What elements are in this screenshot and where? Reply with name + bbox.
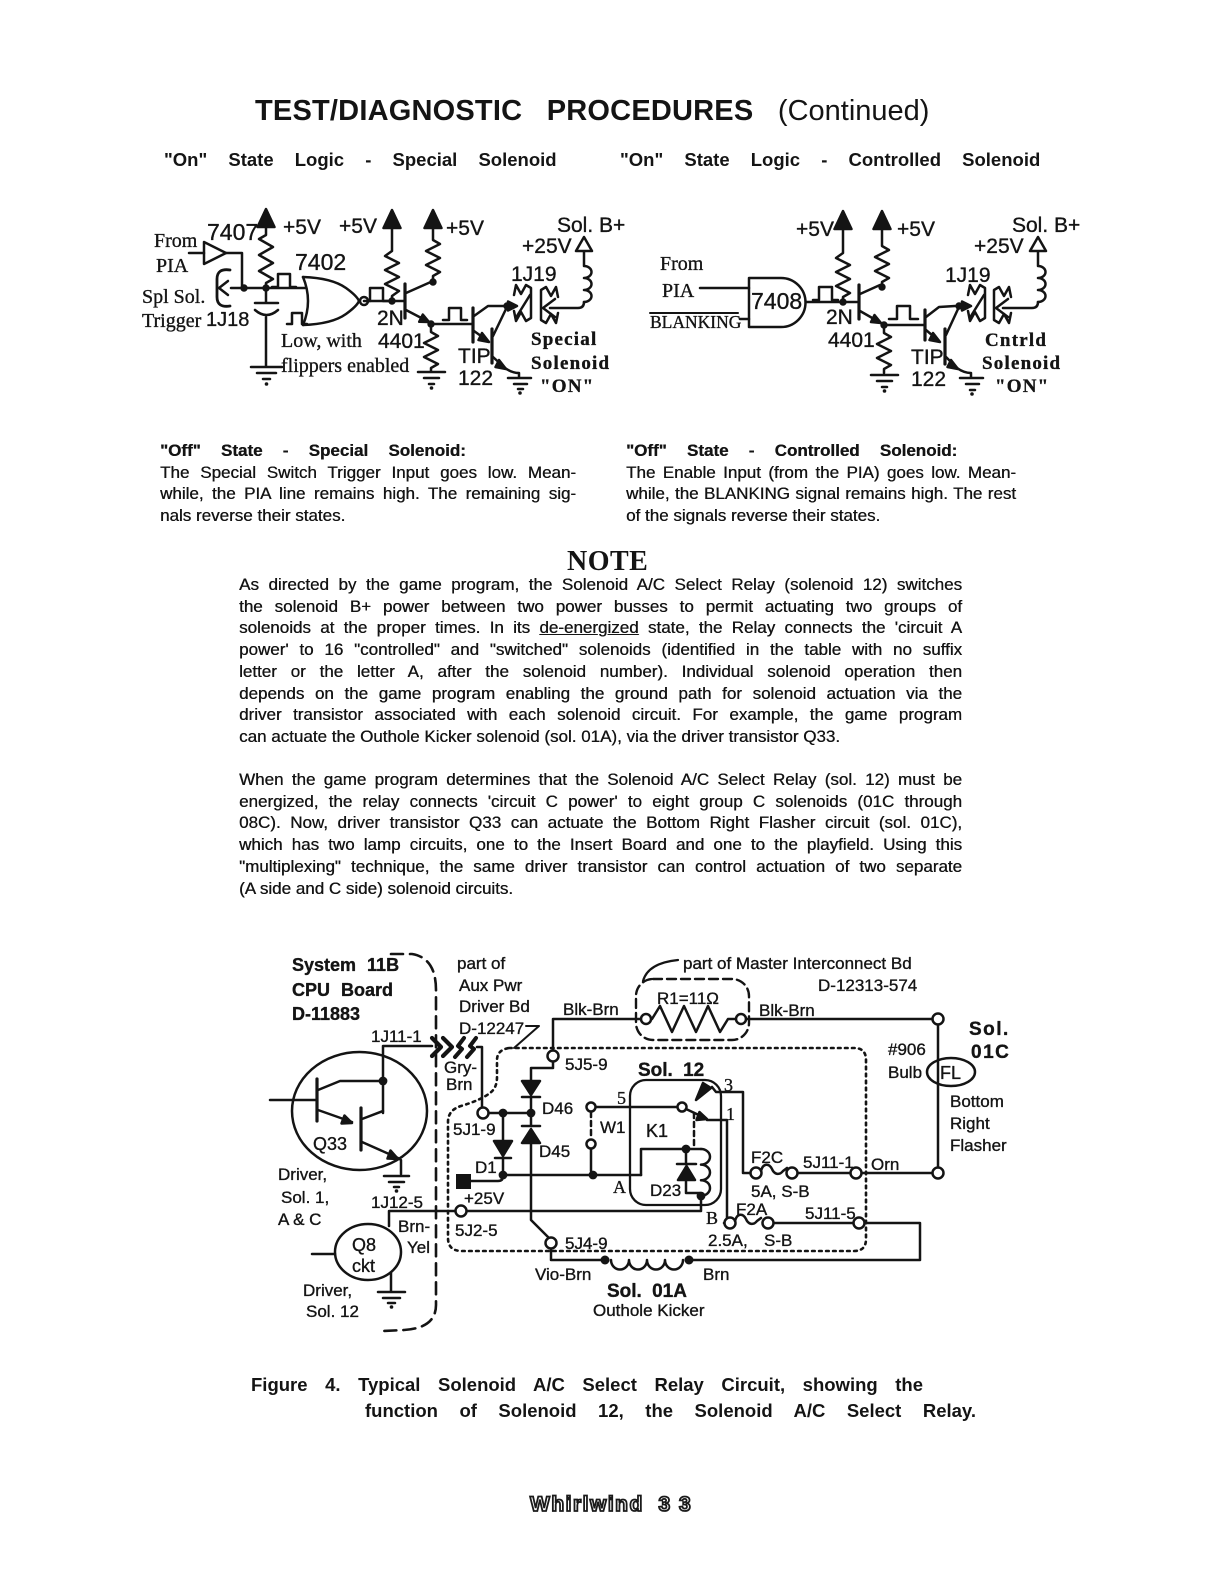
+5V arrow (258, 209, 275, 227)
svg-text:+5V: +5V (796, 218, 834, 241)
svg-text:Driver Bd: Driver Bd (459, 997, 530, 1016)
junction dot coil bottom (697, 1192, 706, 1201)
wire emitter to TIP122 (431, 323, 472, 326)
wire contact 3 to F2C (712, 1087, 750, 1173)
svg-text:From: From (154, 230, 198, 252)
wire +25V rail (471, 1175, 641, 1181)
relay armature to contact 1 (686, 1109, 703, 1117)
svg-text:D45: D45 (539, 1142, 570, 1161)
svg-text:Yel: Yel (407, 1238, 430, 1257)
page footer (530, 1493, 692, 1517)
wire B side to 5J2-5 (466, 1196, 701, 1211)
wire F2C to 5J11-1 (798, 1172, 850, 1175)
junction dot (527, 1109, 536, 1118)
transistor TIP122 (923, 310, 926, 340)
junction dot (499, 1171, 508, 1180)
junction dot (388, 297, 395, 304)
svg-text:4401: 4401 (828, 329, 875, 352)
wire to 5J1-9 (477, 1047, 482, 1107)
+5V arrow (384, 210, 401, 228)
connector 5J5-9 (548, 1051, 559, 1062)
svg-text:+5V: +5V (339, 215, 377, 238)
svg-text:"ON": "ON" (540, 376, 594, 397)
wire Q8 input (312, 1253, 335, 1256)
connector 5J4-9 (546, 1238, 557, 1249)
svg-text:Bulb: Bulb (888, 1063, 922, 1082)
AND gate 7408 (749, 278, 805, 327)
leader to R1 box (643, 960, 678, 981)
wire PIA input (189, 252, 204, 255)
svg-text:S-B: S-B (764, 1231, 792, 1250)
wire connector to coil (1003, 302, 1038, 308)
ground (384, 1176, 409, 1187)
emitter resistor (424, 327, 438, 371)
junction dot emitter (880, 321, 887, 328)
note paragraph 1 (239, 574, 962, 748)
junction dot collector (503, 302, 510, 309)
diode D23 (677, 1149, 696, 1164)
pulse waveform (889, 306, 918, 319)
junction dot (379, 1077, 388, 1086)
wire contact 1 to F2A (707, 1120, 727, 1223)
svg-text:From: From (660, 253, 704, 275)
diode D1 (502, 1113, 505, 1140)
svg-text:Spl Sol.: Spl Sol. (142, 286, 205, 308)
pulse waveform (364, 288, 389, 301)
junction dot Vio-Brn (601, 1256, 610, 1265)
wire emitter to TIP122 (884, 324, 924, 327)
svg-text:A: A (613, 1177, 626, 1197)
relay contact 3 arrow (696, 1083, 711, 1100)
CPU board dashed border (384, 954, 436, 1331)
svg-text:7408: 7408 (751, 288, 802, 314)
svg-text:5J2-5: 5J2-5 (455, 1221, 498, 1240)
wire Q8 to ground (390, 1273, 393, 1291)
svg-text:+25V: +25V (522, 235, 572, 258)
svg-text:Sol. 1,: Sol. 1, (281, 1188, 329, 1207)
svg-text:Vio-Brn: Vio-Brn (535, 1265, 591, 1284)
svg-text:PIA: PIA (662, 280, 695, 302)
svg-text:1J11-1: 1J11-1 (371, 1027, 422, 1046)
svg-text:Blk-Brn: Blk-Brn (759, 1001, 815, 1020)
wire 5J1-9 to diode lines (489, 1112, 531, 1115)
connector 5J2-5 (456, 1206, 467, 1217)
Q33 first base bar (315, 1079, 318, 1121)
svg-text:D23: D23 (650, 1181, 681, 1200)
svg-text:+25V: +25V (464, 1189, 505, 1208)
svg-text:part of: part of (457, 954, 505, 973)
+25V open arrow (576, 237, 592, 251)
diode D45 (522, 1113, 540, 1126)
svg-text:Brn: Brn (703, 1265, 729, 1284)
pull-up resistor to +5V (259, 227, 273, 288)
transistor Q33 driver (circled pair) (292, 1052, 427, 1170)
svg-text:W1: W1 (600, 1118, 626, 1137)
svg-text:Sol.: Sol. (969, 1019, 1010, 1040)
junction dot (839, 298, 846, 305)
wire PIA to AND gate (700, 287, 749, 290)
svg-text:Low, with: Low, with (281, 330, 362, 352)
svg-text:Cntrld: Cntrld (985, 330, 1047, 351)
svg-text:01C: 01C (971, 1042, 1010, 1063)
note paragraph 2 (239, 769, 962, 899)
wire F2A to 5J11-5 (774, 1222, 853, 1225)
transistor TIP122 (471, 308, 474, 342)
svg-text:BLANKING: BLANKING (650, 312, 742, 332)
svg-text:PIA: PIA (156, 255, 189, 277)
svg-text:+5V: +5V (446, 217, 484, 240)
svg-text:Sol. 12: Sol. 12 (306, 1302, 359, 1321)
emitter resistor (877, 328, 891, 373)
junction dot collector (955, 302, 962, 309)
+25V open arrow (1030, 237, 1046, 251)
page title (255, 95, 929, 128)
junction dot (240, 284, 247, 291)
wire trigger node (231, 287, 305, 290)
svg-text:Sol. 01A: Sol. 01A (607, 1281, 687, 1302)
solenoid coil Sol. 01A (611, 1260, 683, 1270)
svg-text:4401: 4401 (378, 330, 425, 353)
junction dot collector (878, 283, 885, 290)
pulse waveform (813, 287, 838, 300)
svg-text:Blk-Brn: Blk-Brn (563, 1000, 619, 1019)
leader to dotted box (514, 1026, 539, 1048)
svg-text:ckt: ckt (352, 1256, 375, 1276)
+5V arrow (874, 211, 891, 229)
svg-text:1J19: 1J19 (945, 264, 991, 287)
svg-text:2N: 2N (826, 306, 853, 329)
junction dot Brn (685, 1256, 694, 1265)
connector 1J18 (217, 270, 230, 307)
NOTE heading (567, 546, 648, 578)
svg-text:Q33: Q33 (313, 1134, 347, 1154)
svg-text:Driver,: Driver, (278, 1165, 327, 1184)
svg-text:Orn: Orn (871, 1155, 899, 1174)
relay K1 box (630, 1080, 721, 1205)
wire AND output (806, 301, 857, 304)
junction dot (589, 1171, 598, 1180)
special solenoid coil (584, 251, 592, 302)
connector at flasher (933, 1168, 944, 1179)
svg-text:flippers enabled: flippers enabled (281, 355, 409, 377)
svg-text:Sol. B+: Sol. B+ (1012, 214, 1080, 237)
svg-text:Aux Pwr: Aux Pwr (459, 976, 523, 995)
svg-text:Sol. 12: Sol. 12 (638, 1060, 704, 1081)
ground (871, 375, 898, 387)
svg-text:Solenoid: Solenoid (531, 353, 610, 374)
wire collector to 1J11-1 (383, 1046, 432, 1113)
svg-text:D-12247: D-12247 (459, 1019, 524, 1038)
svg-text:TIP: TIP (911, 346, 944, 369)
Q33 first collector (318, 1081, 383, 1090)
junction dot (682, 1145, 691, 1154)
wire NOR output (368, 300, 404, 303)
wire Blk-Brn from 5J5-9 up and to R1 (553, 1019, 641, 1050)
svg-text:#906: #906 (888, 1040, 926, 1059)
"Off" State - Special Solenoid paragraph (160, 440, 576, 527)
figure caption (251, 1374, 923, 1396)
wire solenoid return to 5J11-5 (693, 1223, 920, 1260)
svg-text:part of Master Interconnect Bd: part of Master Interconnect Bd (683, 954, 912, 973)
svg-text:+5V: +5V (283, 216, 321, 239)
wire relay pin 5 (596, 1106, 677, 1109)
ground (378, 1292, 405, 1303)
pulse waveform (272, 274, 296, 287)
ground (960, 378, 983, 390)
connector 5J11-5 (854, 1218, 865, 1229)
"Off" State - Controlled Solenoid paragraph (626, 440, 1016, 527)
right column subheading (620, 149, 1040, 171)
svg-text:Trigger: Trigger (142, 310, 202, 332)
svg-text:Driver,: Driver, (303, 1281, 352, 1300)
svg-text:A & C: A & C (278, 1210, 321, 1229)
svg-text:5J1-9: 5J1-9 (453, 1120, 496, 1139)
wire BLANKING to AND gate (740, 318, 749, 321)
Aux Pwr Driver Bd dotted border (448, 1048, 866, 1251)
svg-text:+5V: +5V (897, 218, 935, 241)
svg-text:TIP: TIP (458, 345, 491, 368)
left column subheading (164, 149, 557, 171)
transistor 2N4401 (403, 284, 406, 318)
driver Q8 circuit circle (335, 1224, 401, 1280)
wire flasher vertical (937, 1025, 940, 1167)
wire to connector (507, 305, 511, 308)
pulse waveform (443, 308, 467, 320)
flasher bulb FL (927, 1058, 975, 1086)
svg-text:D46: D46 (542, 1099, 573, 1118)
svg-text:1J12-5: 1J12-5 (371, 1193, 423, 1212)
svg-text:2N: 2N (377, 307, 404, 330)
relay coil K1 (701, 1149, 710, 1196)
svg-text:1J18: 1J18 (206, 309, 249, 331)
wire A side into relay coil (641, 1149, 701, 1175)
R1 dashed box (master interconnect) (636, 979, 749, 1040)
jumper W1 (590, 1112, 593, 1139)
connector 5J1-9 (478, 1108, 489, 1119)
svg-text:FL: FL (940, 1063, 961, 1083)
base pull-up resistor to +5V (385, 227, 399, 301)
pulse at lower NOR input (287, 313, 307, 324)
collector pull-up resistor to +5V (875, 228, 889, 286)
Q33 second collector (362, 1111, 383, 1119)
svg-text:Special: Special (531, 329, 597, 350)
svg-text:CPU Board: CPU Board (292, 980, 393, 1000)
svg-text:D1: D1 (475, 1158, 497, 1177)
svg-text:F2A: F2A (736, 1200, 768, 1219)
collector pull-up resistor to +5V (426, 227, 440, 281)
connector 5J11-1 (851, 1168, 862, 1179)
ground (508, 378, 531, 389)
svg-text:Brn-: Brn- (398, 1217, 430, 1236)
buffer 7407 (204, 242, 226, 264)
svg-text:5J4-9: 5J4-9 (565, 1234, 608, 1253)
wire R1 to flasher branch (746, 1018, 932, 1021)
NOR gate 7402 (303, 277, 308, 325)
ground (251, 367, 282, 379)
wire 5J2-5 to Q8 (389, 1211, 455, 1226)
Q33 second base bar (359, 1108, 362, 1150)
capacitor (255, 292, 278, 366)
svg-text:"ON": "ON" (995, 376, 1049, 397)
svg-text:System 11B: System 11B (292, 955, 399, 975)
ground (418, 372, 445, 384)
wire 5J5-9 down to D46 (531, 1062, 553, 1080)
wire buffer output down to node (226, 253, 242, 286)
svg-text:Outhole Kicker: Outhole Kicker (593, 1301, 705, 1320)
junction dot (499, 1109, 508, 1118)
junction dot (262, 284, 269, 291)
wire 5J4-9 to solenoid (551, 1249, 601, 1260)
wire to connector (959, 305, 963, 308)
diode D46 (522, 1081, 540, 1095)
controlled solenoid coil (1038, 251, 1046, 302)
base pull-up resistor to +5V (836, 228, 850, 302)
wire connector to coil (550, 302, 584, 308)
junction dot collector (429, 278, 436, 285)
svg-text:7402: 7402 (295, 249, 346, 275)
svg-text:1J19: 1J19 (511, 263, 557, 286)
wire Orn (862, 1172, 932, 1175)
svg-text:Right: Right (950, 1114, 990, 1133)
svg-text:7407: 7407 (207, 219, 258, 245)
Q33 first emitter (318, 1110, 352, 1122)
+5V arrow (425, 210, 442, 228)
transistor 2N4401 (857, 285, 860, 319)
relay mechanical link (693, 1113, 696, 1146)
wire base lead (270, 1099, 316, 1102)
svg-text:Q8: Q8 (352, 1235, 376, 1255)
wire D45 down to 5J4-9 (531, 1143, 549, 1238)
svg-text:Flasher: Flasher (950, 1136, 1007, 1155)
relay pivot contact (678, 1103, 687, 1112)
svg-text:122: 122 (911, 368, 946, 391)
junction dot emitter (427, 320, 434, 327)
svg-text:D-11883: D-11883 (292, 1004, 360, 1024)
svg-text:122: 122 (458, 367, 493, 390)
svg-text:5J11-5: 5J11-5 (805, 1204, 856, 1223)
svg-text:5A, S-B: 5A, S-B (751, 1182, 810, 1201)
+25V terminal square (456, 1174, 471, 1189)
svg-text:D-12313-574: D-12313-574 (818, 976, 917, 995)
svg-text:R1=11Ω: R1=11Ω (657, 989, 719, 1008)
junction connector (933, 1014, 944, 1025)
svg-text:5J5-9: 5J5-9 (565, 1055, 608, 1074)
svg-text:5J11-1: 5J11-1 (803, 1153, 854, 1172)
svg-text:B: B (706, 1208, 718, 1228)
svg-text:+25V: +25V (974, 235, 1024, 258)
svg-text:Sol. B+: Sol. B+ (557, 214, 625, 237)
Q33 second emitter (362, 1142, 401, 1174)
+5V arrow (835, 211, 852, 229)
connector chevrons 1J11-1 (432, 1038, 441, 1056)
svg-text:5: 5 (617, 1088, 626, 1108)
svg-text:2.5A,: 2.5A, (708, 1231, 748, 1250)
svg-text:Solenoid: Solenoid (982, 353, 1061, 374)
svg-text:Brn: Brn (446, 1075, 472, 1094)
svg-text:K1: K1 (646, 1121, 668, 1141)
svg-text:Bottom: Bottom (950, 1092, 1004, 1111)
